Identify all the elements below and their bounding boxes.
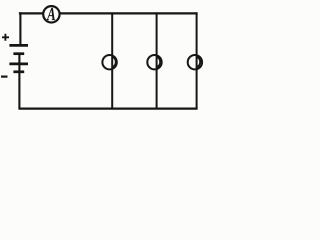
- battery minus label: [1, 75, 8, 77]
- wire: branch 3 vertical right side (through lamp L3): [196, 12, 198, 108]
- battery plate long 1: [9, 44, 28, 47]
- wire: branch 1 vertical (through lamp L1): [111, 12, 113, 108]
- wire: battery top lead (vertical): [19, 12, 21, 46]
- battery plate short 2: [13, 70, 24, 73]
- wire top-left: battery positive to ammeter: [19, 12, 43, 14]
- wire top: ammeter to top-right corner: [60, 12, 197, 14]
- lamp L3: [188, 55, 202, 69]
- lamp L1: [102, 55, 116, 69]
- ammeter A: [43, 6, 59, 22]
- lamp L2: [147, 55, 161, 69]
- battery plus label: [2, 34, 9, 41]
- battery plate short 1: [13, 52, 24, 55]
- battery plate long 2: [9, 63, 28, 66]
- wire: branch 2 vertical (through lamp L2): [156, 12, 158, 108]
- wire bottom: from battery to bottom-right corner: [19, 107, 198, 109]
- wire: battery negative lead down to bottom wire: [18, 53, 20, 109]
